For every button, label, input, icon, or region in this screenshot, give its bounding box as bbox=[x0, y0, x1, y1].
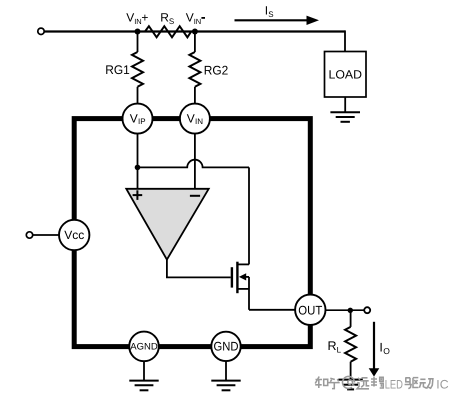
svg-text:AGND: AGND bbox=[130, 342, 158, 353]
node feedback junction bbox=[135, 165, 141, 171]
svg-text:LOAD: LOAD bbox=[329, 68, 363, 82]
ground (below AGND) bbox=[129, 361, 158, 390]
svg-text:IC: IC bbox=[436, 378, 448, 392]
node VIN- (junction dot) bbox=[192, 29, 198, 35]
svg-text:IP: IP bbox=[138, 117, 146, 126]
label RL bbox=[328, 339, 342, 355]
wire op-amp output to gate bbox=[167, 260, 231, 278]
wire top rail bbox=[44, 30, 345, 32]
pin OUT bbox=[295, 295, 325, 325]
ground (below LOAD) bbox=[330, 97, 360, 122]
pin GND bbox=[211, 332, 240, 361]
svg-text:IN: IN bbox=[194, 17, 202, 26]
label VIN+ bbox=[126, 10, 148, 25]
output terminal (open circle) bbox=[364, 307, 370, 313]
动 bbox=[419, 379, 433, 389]
resistor RG2 bbox=[189, 32, 200, 105]
svg-text:IN: IN bbox=[195, 117, 203, 126]
label LED (watermark) bbox=[385, 378, 403, 392]
ground (below GND) bbox=[211, 361, 240, 390]
svg-text:S: S bbox=[268, 10, 273, 19]
svg-text:RG2: RG2 bbox=[204, 64, 229, 78]
svg-text:+: + bbox=[141, 10, 148, 24]
Vcc terminal (open circle) bbox=[26, 232, 32, 238]
wire feedback to drain (with hop over VIN wire) bbox=[138, 160, 250, 168]
ground (below RL) bbox=[338, 380, 362, 390]
知 bbox=[315, 377, 328, 389]
label IO bbox=[379, 340, 390, 356]
wire to LOAD bbox=[344, 30, 346, 51]
node OUT junction bbox=[348, 308, 353, 313]
node VIN+ (junction dot) bbox=[135, 29, 141, 35]
wire drain vertical bbox=[248, 167, 250, 264]
transistor Q1 (NMOS) bbox=[232, 262, 249, 310]
resistor RL bbox=[345, 310, 356, 379]
svg-text:V: V bbox=[130, 111, 138, 125]
svg-text:R: R bbox=[328, 339, 337, 353]
svg-text:RG1: RG1 bbox=[105, 63, 130, 77]
wire OUT to output terminal bbox=[326, 309, 365, 311]
label IS bbox=[265, 3, 274, 19]
svg-text:GND: GND bbox=[214, 340, 239, 354]
wire VIP to op-amp + input bbox=[137, 134, 139, 189]
label RS bbox=[160, 10, 174, 25]
watermark 知乎 @远翔LED驱动IC bbox=[315, 376, 383, 388]
arrow IO bbox=[369, 322, 380, 377]
resistor RS bbox=[145, 26, 191, 37]
label VIN- bbox=[186, 10, 205, 25]
wire VIN to op-amp - input bbox=[194, 134, 196, 189]
arrow IS bbox=[235, 16, 320, 25]
@ bbox=[343, 376, 355, 388]
远 bbox=[357, 378, 369, 389]
svg-text:Vcc: Vcc bbox=[64, 228, 84, 242]
IC box U1 bbox=[74, 119, 310, 347]
乎 bbox=[328, 378, 339, 388]
驱 bbox=[405, 378, 419, 389]
wire source to OUT bbox=[249, 309, 295, 311]
pin VIP bbox=[123, 104, 153, 134]
pin AGND bbox=[129, 332, 159, 362]
LOAD box bbox=[325, 52, 367, 98]
svg-text:V: V bbox=[186, 10, 194, 24]
label RG1 bbox=[105, 63, 130, 77]
pin Vcc bbox=[59, 220, 89, 250]
svg-text:V: V bbox=[126, 10, 134, 24]
pin VIN bbox=[180, 104, 210, 134]
label RG2 bbox=[204, 64, 229, 78]
svg-text:S: S bbox=[169, 17, 174, 26]
svg-text:L: L bbox=[337, 345, 342, 354]
label IC (watermark) bbox=[436, 378, 448, 392]
wire Vcc terminal lead bbox=[33, 234, 60, 236]
svg-text:LED: LED bbox=[385, 378, 403, 392]
input terminal (open circle, left) bbox=[38, 28, 44, 34]
resistor RG1 bbox=[132, 32, 143, 105]
翔 bbox=[371, 377, 383, 388]
op-amp U1A bbox=[126, 189, 208, 260]
svg-text:OUT: OUT bbox=[298, 303, 322, 317]
svg-text:V: V bbox=[187, 111, 195, 125]
svg-text:O: O bbox=[383, 346, 390, 356]
